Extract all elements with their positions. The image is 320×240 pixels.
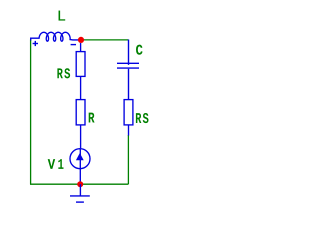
junction node top (78, 37, 84, 43)
label RS right (136, 113, 141, 123)
resistor RS series (middle) (76, 43, 85, 100)
capacitor C (117, 40, 139, 100)
current source V1 (70, 149, 90, 184)
ground (70, 184, 90, 202)
wire bottom rail (30, 183, 128, 185)
wire top right horizontal (84, 39, 129, 41)
label V1 (48, 159, 55, 169)
current source V1 arrow (76, 153, 84, 160)
inductor minus terminal mark (71, 44, 76, 46)
wire right vertical (127, 135, 129, 184)
label R (89, 113, 95, 123)
label C (136, 45, 143, 55)
label L (59, 11, 66, 21)
junction node bottom (77, 181, 83, 187)
inductor L (31, 32, 78, 41)
wire left vertical (30, 40, 32, 185)
resistor RS right (124, 100, 133, 136)
resistor R (76, 100, 85, 149)
label RS middle (57, 68, 62, 78)
inductor plus terminal mark (33, 41, 38, 46)
